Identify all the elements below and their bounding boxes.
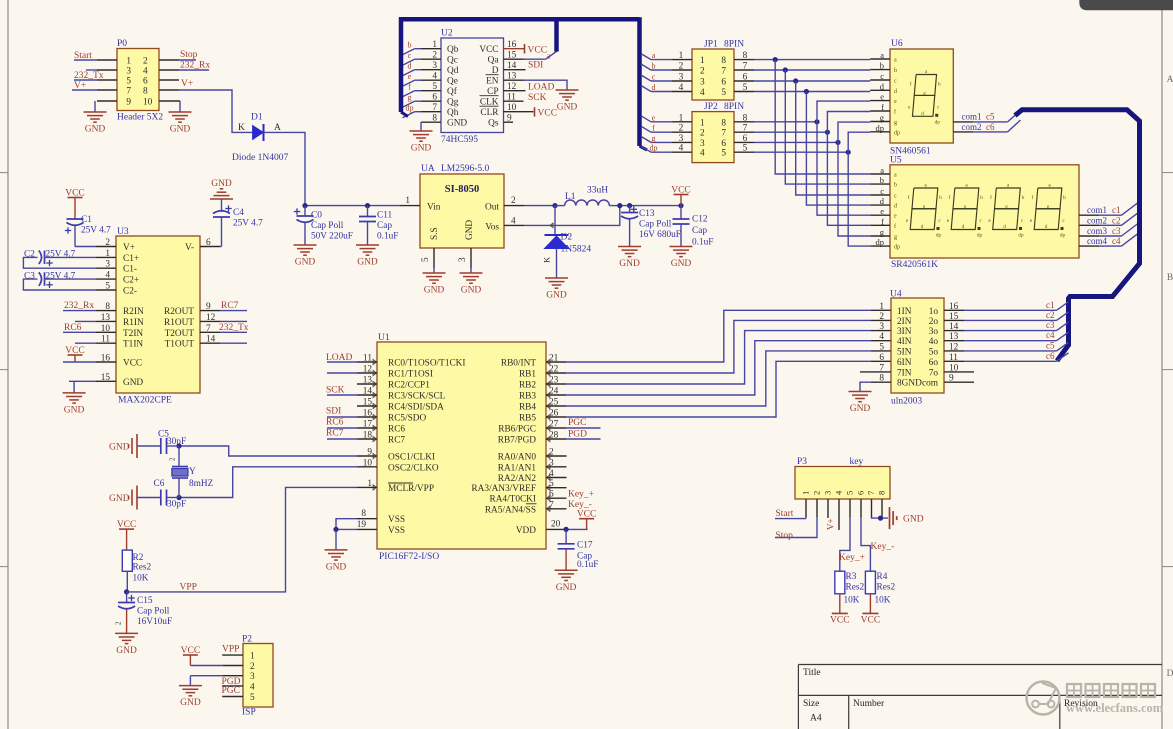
power VCC under R3 bbox=[839, 594, 841, 614]
svg-text:K: K bbox=[542, 256, 552, 263]
svg-text:2: 2 bbox=[511, 196, 516, 206]
svg-text:D: D bbox=[1167, 669, 1173, 679]
junction node net a bbox=[773, 57, 778, 62]
svg-text:6: 6 bbox=[856, 491, 866, 495]
JP2 pin 6 wire to net g bbox=[734, 141, 754, 143]
svg-text:c6: c6 bbox=[986, 122, 995, 132]
vertical wire net b to U5 bbox=[785, 70, 870, 184]
node junction L1 left bbox=[552, 203, 557, 208]
svg-text:g: g bbox=[1047, 204, 1050, 210]
svg-text:RA4/T0CKI: RA4/T0CKI bbox=[490, 495, 537, 505]
svg-text:GND: GND bbox=[465, 220, 475, 240]
U2 pin 9 stub bbox=[504, 121, 514, 123]
connector P2 body bbox=[243, 644, 273, 708]
watermark elecfans logo circle bbox=[1027, 682, 1060, 715]
svg-text:3: 3 bbox=[458, 257, 468, 262]
svg-text:dp: dp bbox=[935, 119, 941, 125]
bus entry c2 bbox=[1122, 213, 1139, 226]
svg-text:3: 3 bbox=[250, 672, 255, 682]
svg-text:1: 1 bbox=[801, 491, 811, 495]
bus entry c1 bbox=[1122, 203, 1139, 216]
svg-text:T1OUT: T1OUT bbox=[165, 340, 195, 350]
connector P3 body bbox=[795, 467, 890, 500]
svg-text:Stop: Stop bbox=[776, 531, 794, 541]
JP1 pin 7 wire to U6 pin b bbox=[734, 69, 754, 71]
resistor R3 Res2 10K bbox=[835, 571, 845, 594]
svg-text:3: 3 bbox=[679, 134, 684, 144]
svg-text:2o: 2o bbox=[929, 317, 939, 327]
U1 pin 15 stub bbox=[357, 405, 377, 407]
svg-text:U2: U2 bbox=[441, 29, 453, 39]
svg-text:PGD: PGD bbox=[568, 430, 587, 440]
wire Out node to VCC node bbox=[620, 205, 681, 207]
svg-text:5: 5 bbox=[721, 149, 726, 159]
connector P0 body bbox=[117, 49, 159, 111]
diode D1 1N4007 bbox=[253, 126, 264, 140]
svg-text:50V 220uF: 50V 220uF bbox=[311, 232, 353, 242]
svg-text:GND: GND bbox=[447, 119, 467, 129]
svg-text:25V 4.7: 25V 4.7 bbox=[233, 219, 263, 229]
U6 left pin f bbox=[870, 110, 890, 112]
svg-text:dp: dp bbox=[876, 123, 885, 133]
ground GND below UA pin 3 bbox=[460, 272, 483, 274]
browser tab artifact top right bbox=[1079, 0, 1173, 10]
svg-text:Vin: Vin bbox=[427, 203, 441, 213]
svg-text:c: c bbox=[408, 51, 412, 60]
svg-text:U5: U5 bbox=[890, 155, 902, 165]
svg-text:GND: GND bbox=[295, 258, 316, 268]
svg-text:30pF: 30pF bbox=[167, 500, 186, 510]
ground GND under P0 pin 10 bbox=[169, 111, 192, 113]
svg-text:MAX202CPE: MAX202CPE bbox=[118, 396, 172, 406]
P2 pin 4 wire PGD bbox=[222, 685, 243, 687]
bus right vertical (to JP1 JP2) bbox=[637, 17, 642, 146]
ground GND under P0 pin 9 bbox=[84, 111, 107, 113]
U1 pin 14 wire SCK bbox=[357, 394, 377, 396]
U2 left pin 5 wire + bus entry f bbox=[421, 90, 441, 92]
svg-text:c6: c6 bbox=[1046, 351, 1055, 361]
ground GND at U4 pin 8 bbox=[849, 391, 872, 393]
svg-text:ISP: ISP bbox=[242, 708, 256, 718]
svg-text:Stop: Stop bbox=[180, 50, 198, 60]
UA pin 4 Vos wire bbox=[504, 224, 524, 226]
svg-text:PGC: PGC bbox=[222, 686, 240, 696]
svg-text:EN: EN bbox=[486, 77, 499, 87]
svg-text:RC4/SDI/SDA: RC4/SDI/SDA bbox=[388, 403, 444, 413]
svg-text:d: d bbox=[408, 62, 412, 71]
U2 left pin 1 wire + bus entry b bbox=[421, 48, 441, 50]
bus entry c4 at U4 bbox=[1057, 332, 1069, 341]
svg-text:R1OUT: R1OUT bbox=[164, 318, 194, 328]
svg-text:GND: GND bbox=[123, 378, 143, 388]
connector JP2 body bbox=[692, 112, 734, 163]
svg-text:2: 2 bbox=[115, 621, 123, 625]
ground GND under D2 bbox=[545, 277, 568, 279]
svg-text:C2-: C2- bbox=[123, 287, 137, 297]
node junction C12 VCC bbox=[678, 203, 683, 208]
junction node crystal top bbox=[176, 443, 181, 448]
svg-text:SR420561K: SR420561K bbox=[891, 260, 938, 270]
svg-text:V+: V+ bbox=[123, 243, 135, 253]
U6 left pin g bbox=[870, 121, 890, 123]
bus entry c3 bbox=[1122, 224, 1139, 237]
U3 pin 16 wire with VCC bbox=[96, 361, 116, 363]
svg-text:U1: U1 bbox=[378, 333, 390, 343]
junction node net g bbox=[835, 140, 840, 145]
svg-text:VPP: VPP bbox=[180, 583, 197, 593]
U3 pin 11 wire bbox=[96, 342, 116, 344]
U2 pin 12 stub bbox=[504, 90, 526, 92]
svg-text:f: f bbox=[408, 83, 411, 92]
svg-text:c2: c2 bbox=[1112, 215, 1121, 225]
shift register U2 body bbox=[441, 38, 504, 133]
svg-text:232_Rx: 232_Rx bbox=[64, 301, 94, 311]
svg-text:Header 5X2: Header 5X2 bbox=[117, 113, 163, 123]
wire C0 stem bbox=[304, 206, 306, 216]
svg-text:b: b bbox=[894, 183, 897, 189]
ground sideways at C6 bbox=[136, 486, 138, 510]
U5 left pin b bbox=[870, 183, 890, 185]
svg-text:Qd: Qd bbox=[447, 66, 459, 76]
svg-text:c: c bbox=[880, 71, 884, 81]
wire OSC2 net bbox=[179, 467, 357, 498]
svg-text:RB2: RB2 bbox=[519, 381, 536, 391]
svg-text:2: 2 bbox=[700, 129, 705, 139]
svg-text:b: b bbox=[980, 195, 983, 201]
U3 pin 14 wire bbox=[200, 342, 220, 344]
svg-text:25V 4.7: 25V 4.7 bbox=[81, 226, 111, 236]
svg-text:T2IN: T2IN bbox=[123, 329, 143, 339]
svg-text:GND: GND bbox=[64, 405, 85, 415]
svg-text:16V10uF: 16V10uF bbox=[137, 617, 172, 627]
U3 pin 9 wire RC7 bbox=[200, 310, 220, 312]
svg-text:c4: c4 bbox=[1112, 236, 1121, 246]
svg-text:3: 3 bbox=[700, 78, 705, 88]
svg-text:dp: dp bbox=[650, 144, 658, 153]
svg-text:R4: R4 bbox=[877, 572, 888, 582]
svg-text:A: A bbox=[274, 123, 281, 133]
svg-text:R3: R3 bbox=[846, 572, 857, 582]
svg-text:VCC: VCC bbox=[830, 615, 850, 625]
svg-text:JP1: JP1 bbox=[704, 40, 718, 50]
svg-text:6: 6 bbox=[143, 77, 148, 87]
title block frame bbox=[798, 664, 1162, 666]
svg-text:com1: com1 bbox=[1087, 205, 1107, 215]
ground GND under C15 bbox=[115, 632, 138, 634]
capacitor C12 0.1uF bbox=[680, 206, 682, 219]
svg-text:10: 10 bbox=[143, 98, 153, 108]
svg-text:4: 4 bbox=[879, 332, 884, 342]
U3 pin 2 wire bbox=[96, 246, 116, 248]
svg-text:c: c bbox=[894, 79, 897, 85]
wire OSC1 net bbox=[179, 446, 357, 456]
wire VPP to U1 MCLR bbox=[127, 487, 357, 592]
svg-text:74HC595: 74HC595 bbox=[441, 135, 478, 145]
P3 pin 7 wire to ground bbox=[871, 499, 873, 517]
U6 left pin e bbox=[870, 100, 890, 102]
svg-text:C6: C6 bbox=[154, 479, 165, 489]
wire D1 anode to C0 node bbox=[264, 132, 306, 205]
svg-text:g: g bbox=[894, 235, 897, 241]
svg-text:GND: GND bbox=[461, 286, 482, 296]
svg-text:f: f bbox=[881, 216, 884, 226]
svg-text:V+: V+ bbox=[181, 79, 193, 89]
svg-text:2: 2 bbox=[143, 57, 148, 67]
svg-text:RA2/AN2: RA2/AN2 bbox=[498, 474, 537, 484]
svg-text:8PIN: 8PIN bbox=[724, 102, 744, 112]
svg-text:a: a bbox=[652, 51, 656, 60]
U4 output pin 11 wire c6 bbox=[944, 360, 964, 362]
svg-text:RC6: RC6 bbox=[64, 323, 82, 333]
JP1 left pin 3 wire + bus entry c bbox=[672, 80, 692, 82]
svg-text:5o: 5o bbox=[929, 347, 939, 357]
svg-text:f: f bbox=[908, 194, 910, 201]
svg-text:c: c bbox=[894, 194, 897, 200]
svg-text:com2: com2 bbox=[1087, 215, 1107, 225]
svg-text:RB1: RB1 bbox=[519, 370, 536, 380]
svg-text:Start: Start bbox=[776, 509, 794, 519]
svg-text:8PIN: 8PIN bbox=[724, 40, 744, 50]
node junction L1 right bbox=[617, 203, 622, 208]
U2 pin 11 stub bbox=[504, 100, 524, 102]
svg-text:8GND: 8GND bbox=[897, 379, 922, 389]
svg-text:c3: c3 bbox=[1112, 226, 1121, 236]
svg-text:10K: 10K bbox=[875, 596, 891, 606]
P0 right pin 2 + wire Stop bbox=[159, 59, 179, 61]
svg-text:d: d bbox=[1003, 224, 1006, 230]
P3 pin 6 wire Key_- bbox=[860, 499, 862, 517]
svg-text:SDI: SDI bbox=[528, 61, 543, 71]
JP1 pin 5 wire to U6 pin d bbox=[734, 91, 754, 93]
U1 pin 18 wire RC7 bbox=[357, 438, 377, 440]
svg-text:Qb: Qb bbox=[447, 45, 459, 55]
svg-text:6: 6 bbox=[721, 139, 726, 149]
U2 left pin 4 wire + bus entry e bbox=[421, 79, 441, 81]
JP1 left pin 1 wire + bus entry a bbox=[672, 59, 692, 61]
svg-text:b: b bbox=[894, 68, 897, 74]
U5 seven segment glyph 4 bbox=[1036, 188, 1062, 209]
U5 seven segment glyph 3 bbox=[995, 188, 1021, 209]
svg-text:Start: Start bbox=[74, 51, 92, 61]
vertical wire net d to U5 bbox=[806, 92, 870, 206]
svg-text:com: com bbox=[922, 379, 939, 389]
svg-text:6o: 6o bbox=[929, 358, 939, 368]
svg-text:5: 5 bbox=[845, 491, 855, 495]
ground GND under U1 VSS bbox=[325, 549, 348, 551]
U6 com1 wire bbox=[953, 121, 973, 123]
svg-text:3IN: 3IN bbox=[897, 327, 912, 337]
svg-text:R2IN: R2IN bbox=[123, 307, 144, 317]
U6 left pin dp bbox=[870, 131, 890, 133]
U4 output pin 16 wire c1 bbox=[944, 309, 964, 311]
svg-text:c4: c4 bbox=[1046, 330, 1055, 340]
node junction C13 bbox=[627, 203, 632, 208]
svg-text:Qc: Qc bbox=[447, 56, 458, 66]
U4 pin 8 wire to ground bbox=[871, 381, 891, 383]
svg-text:f: f bbox=[652, 124, 655, 133]
svg-text:7o: 7o bbox=[929, 368, 939, 378]
U4 output pin 13 wire c4 bbox=[944, 340, 964, 342]
svg-text:c2: c2 bbox=[1046, 310, 1055, 320]
svg-text:5IN: 5IN bbox=[897, 347, 912, 357]
junction node VPP bbox=[124, 589, 129, 594]
U2 pin 10 wire + VCC tick bbox=[504, 111, 534, 113]
sheet frame left border bbox=[7, 0, 9, 729]
U3 pin 7 wire 232_Tx bbox=[200, 331, 220, 333]
U2 left pin 2 wire + bus entry c bbox=[421, 58, 441, 60]
svg-text:RA1/AN1: RA1/AN1 bbox=[498, 463, 537, 473]
wire R2 to VPP node bbox=[126, 571, 128, 592]
U3 pin 4 wire bbox=[96, 278, 116, 280]
svg-text:8: 8 bbox=[721, 118, 726, 128]
P2 pin 3 wire to ground bbox=[222, 675, 243, 677]
svg-text:S.S: S.S bbox=[430, 227, 440, 240]
svg-text:8: 8 bbox=[721, 56, 726, 66]
svg-text:GND: GND bbox=[411, 144, 432, 154]
svg-text:0.1uF: 0.1uF bbox=[692, 238, 713, 248]
U2 left pin 7 wire + bus entry dp bbox=[421, 111, 441, 113]
junction node net e bbox=[814, 119, 819, 124]
svg-text:RC2/CCP1: RC2/CCP1 bbox=[388, 381, 430, 391]
P2 pin 5 wire PGC bbox=[222, 696, 243, 698]
U3 pin 13 wire bbox=[96, 320, 116, 322]
svg-text:b: b bbox=[880, 61, 884, 71]
svg-text:R2OUT: R2OUT bbox=[164, 307, 194, 317]
svg-text:c3: c3 bbox=[1046, 320, 1055, 330]
svg-text:5: 5 bbox=[879, 342, 884, 352]
sheet frame right border bbox=[1161, 0, 1163, 729]
svg-text:dp: dp bbox=[876, 237, 885, 247]
svg-text:P0: P0 bbox=[117, 39, 127, 49]
JP1 pin 6 wire to U6 pin c bbox=[734, 80, 754, 82]
vertical wire net e U6 to U5 bbox=[817, 101, 870, 215]
bus entry c6 at U4 bbox=[1057, 353, 1069, 362]
svg-text:SI-8050: SI-8050 bbox=[445, 184, 479, 195]
svg-text:5: 5 bbox=[421, 257, 431, 262]
svg-text:RC7: RC7 bbox=[388, 436, 405, 446]
U4 pin 9 stub bbox=[944, 381, 974, 383]
svg-text:LM2596-5.0: LM2596-5.0 bbox=[441, 164, 490, 174]
svg-text:a: a bbox=[880, 50, 884, 60]
svg-text:Key_-: Key_- bbox=[568, 500, 592, 510]
node junction C0 bbox=[302, 203, 307, 208]
svg-text:C1: C1 bbox=[81, 215, 92, 225]
capacitor C15 Cap Poll 16V10uF bbox=[126, 592, 128, 602]
regulator UA SI-8050 body bbox=[420, 174, 504, 248]
svg-text:c5: c5 bbox=[986, 112, 995, 122]
JP2 left pin 2 wire + bus entry f bbox=[672, 131, 692, 133]
bus entry c4 bbox=[1122, 234, 1139, 247]
svg-text:SDI: SDI bbox=[326, 407, 341, 417]
P0 right pin 8 + wire to diode D1 bbox=[159, 89, 179, 91]
svg-text:7: 7 bbox=[721, 67, 726, 77]
bus entry com2 bbox=[1008, 120, 1021, 132]
bus right side (digit commons) bbox=[1015, 110, 1140, 361]
svg-text:RC7: RC7 bbox=[221, 301, 239, 311]
junction node net b bbox=[783, 67, 788, 72]
svg-text:dp: dp bbox=[977, 233, 983, 239]
wire U1 RB1 to U4 pin 2 bbox=[546, 372, 566, 374]
P0 right pin 6 + wire V+ bbox=[159, 79, 179, 81]
svg-text:com2: com2 bbox=[962, 122, 982, 132]
svg-text:3: 3 bbox=[126, 67, 131, 77]
capacitor C4 25V 4.7 with GND above bbox=[220, 188, 224, 190]
svg-text:g: g bbox=[923, 90, 926, 96]
svg-text:B: B bbox=[1167, 273, 1173, 283]
bus entry c1 at U4 bbox=[1057, 302, 1069, 311]
vertical wire net dp U6 to U5 bbox=[848, 132, 870, 246]
svg-text:P3: P3 bbox=[797, 457, 807, 467]
ground GND at P2 pin 3 bbox=[179, 685, 202, 687]
svg-text:com3: com3 bbox=[1087, 226, 1107, 236]
svg-text:GND: GND bbox=[424, 286, 445, 296]
U1 RA pin 6 stub bbox=[546, 497, 567, 499]
svg-text:a: a bbox=[894, 58, 897, 64]
U1 RA pin 5 stub bbox=[546, 487, 567, 489]
svg-text:1: 1 bbox=[679, 51, 684, 61]
svg-text:L1: L1 bbox=[565, 192, 576, 202]
P3 pin 8 wire bbox=[881, 499, 883, 517]
svg-text:b: b bbox=[652, 62, 656, 71]
svg-text:4: 4 bbox=[679, 144, 684, 154]
svg-text:MCLR/VPP: MCLR/VPP bbox=[388, 484, 434, 494]
U6 seven segment glyph bbox=[914, 75, 936, 96]
svg-text:b: b bbox=[938, 82, 941, 88]
svg-text:RB7/PGD: RB7/PGD bbox=[498, 436, 537, 446]
svg-text:GND: GND bbox=[546, 291, 567, 301]
JP1 left pin 4 wire + bus entry d bbox=[672, 91, 692, 93]
P0 left pin 5 + wire 232_Tx bbox=[97, 79, 117, 81]
P2 pin 1 wire VPP bbox=[222, 654, 243, 656]
svg-text:RC5/SDO: RC5/SDO bbox=[388, 414, 427, 424]
capacitor C2 25V 4.7 flying bbox=[44, 251, 46, 265]
svg-text:Key_+: Key_+ bbox=[839, 553, 865, 563]
crystal Y 8mHZ bbox=[172, 466, 188, 468]
svg-text:LOAD: LOAD bbox=[326, 353, 353, 363]
svg-text:Vos: Vos bbox=[485, 223, 499, 233]
U5 left pin e bbox=[870, 214, 890, 216]
svg-text:VPP: VPP bbox=[222, 645, 239, 655]
svg-text:T2OUT: T2OUT bbox=[165, 329, 195, 339]
svg-text:d: d bbox=[894, 89, 897, 95]
junction node net f bbox=[825, 130, 830, 135]
svg-text:RC3/SCK/SCL: RC3/SCK/SCL bbox=[388, 392, 446, 402]
svg-text:g: g bbox=[408, 93, 412, 102]
svg-text:3: 3 bbox=[823, 491, 833, 495]
svg-text:Qa: Qa bbox=[488, 56, 499, 66]
U1 RA pin 3 stub bbox=[546, 466, 567, 468]
svg-text:uln2003: uln2003 bbox=[891, 397, 922, 407]
svg-text:g: g bbox=[923, 204, 926, 210]
svg-text:1N5824: 1N5824 bbox=[561, 245, 592, 255]
svg-text:Cap Poll: Cap Poll bbox=[137, 607, 170, 617]
ground sideways at C5 bbox=[136, 434, 138, 458]
svg-text:2: 2 bbox=[250, 662, 255, 672]
UA pin 3 wire to ground bbox=[470, 248, 472, 268]
svg-text:SCK: SCK bbox=[528, 93, 547, 103]
svg-text:8: 8 bbox=[877, 491, 887, 495]
svg-text:1: 1 bbox=[700, 56, 705, 66]
U3 pin 15 wire to ground bbox=[96, 380, 116, 382]
svg-text:b: b bbox=[408, 41, 412, 50]
wire U1 RB4 to U4 pin 5 bbox=[546, 405, 566, 407]
vertical wire net f U6 to U5 bbox=[827, 112, 870, 226]
junction node VSS bbox=[333, 527, 338, 532]
U6 com2 wire bbox=[953, 131, 973, 133]
svg-text:GND: GND bbox=[170, 125, 191, 135]
U3 pin 1 wire bbox=[96, 256, 116, 258]
svg-text:RA3/AN3/VREF: RA3/AN3/VREF bbox=[471, 484, 536, 494]
